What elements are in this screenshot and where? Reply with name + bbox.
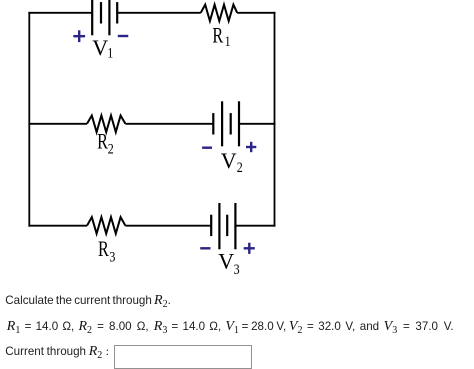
- resistor R2 zigzag: [87, 116, 125, 133]
- battery V2 (short,tall,short,tall plates): [213, 101, 239, 146]
- svg-text:1: 1: [225, 34, 231, 50]
- label V3: [218, 248, 239, 278]
- minus sign of V2: [202, 146, 212, 148]
- answer input box: [114, 345, 252, 369]
- wire: top-right segment from R1 to right rail: [237, 12, 275, 14]
- label V2: [221, 148, 243, 176]
- wire: top-left segment from left rail to battery V1: [28, 12, 92, 14]
- label R2: [97, 129, 114, 158]
- svg-text:V: V: [221, 148, 237, 173]
- answer prompt line 3: [5, 344, 109, 361]
- wire: middle segment between R2 and V2: [125, 123, 213, 125]
- label V1: [92, 35, 113, 61]
- svg-text:2: 2: [108, 142, 114, 158]
- minus sign of V1: [118, 35, 129, 37]
- label R1: [212, 23, 230, 50]
- svg-text:3: 3: [109, 249, 115, 265]
- wire: middle-left segment from left rail to R2: [28, 123, 87, 125]
- wire: top segment between V1 and R1: [117, 12, 201, 14]
- svg-text:2: 2: [237, 160, 243, 176]
- wire: bottom-left segment from left rail to R3: [28, 225, 87, 227]
- svg-text:R: R: [98, 236, 109, 261]
- wire: left rail: [28, 12, 30, 227]
- plus sign of V1: [73, 30, 85, 42]
- resistor R3 zigzag: [87, 217, 125, 234]
- circuit schematic drawing: [0, 0, 474, 290]
- svg-text:V: V: [92, 35, 108, 60]
- battery V3 (short,tall,short,tall plates): [211, 203, 235, 249]
- svg-text:V: V: [218, 248, 234, 273]
- svg-text:1: 1: [107, 45, 113, 61]
- wire: middle-right segment from V2 to right rail: [239, 123, 275, 125]
- wire: bottom-right segment from V3 to right rail: [235, 225, 275, 227]
- wire: right rail: [274, 12, 276, 227]
- svg-text:R: R: [212, 23, 223, 48]
- label R3: [98, 236, 115, 265]
- svg-text:3: 3: [234, 262, 240, 278]
- wire: bottom segment between R3 and V3: [125, 225, 211, 227]
- resistor R1 zigzag: [201, 5, 238, 21]
- plus sign of V3: [244, 243, 255, 254]
- svg-text:R: R: [97, 129, 108, 154]
- battery V1 (tall,short,tall,short plates): [92, 0, 117, 35]
- plus sign of V2: [246, 142, 256, 152]
- minus sign of V3: [200, 247, 210, 249]
- given values text line 2: [7, 319, 454, 336]
- question text line 1: [5, 293, 171, 310]
